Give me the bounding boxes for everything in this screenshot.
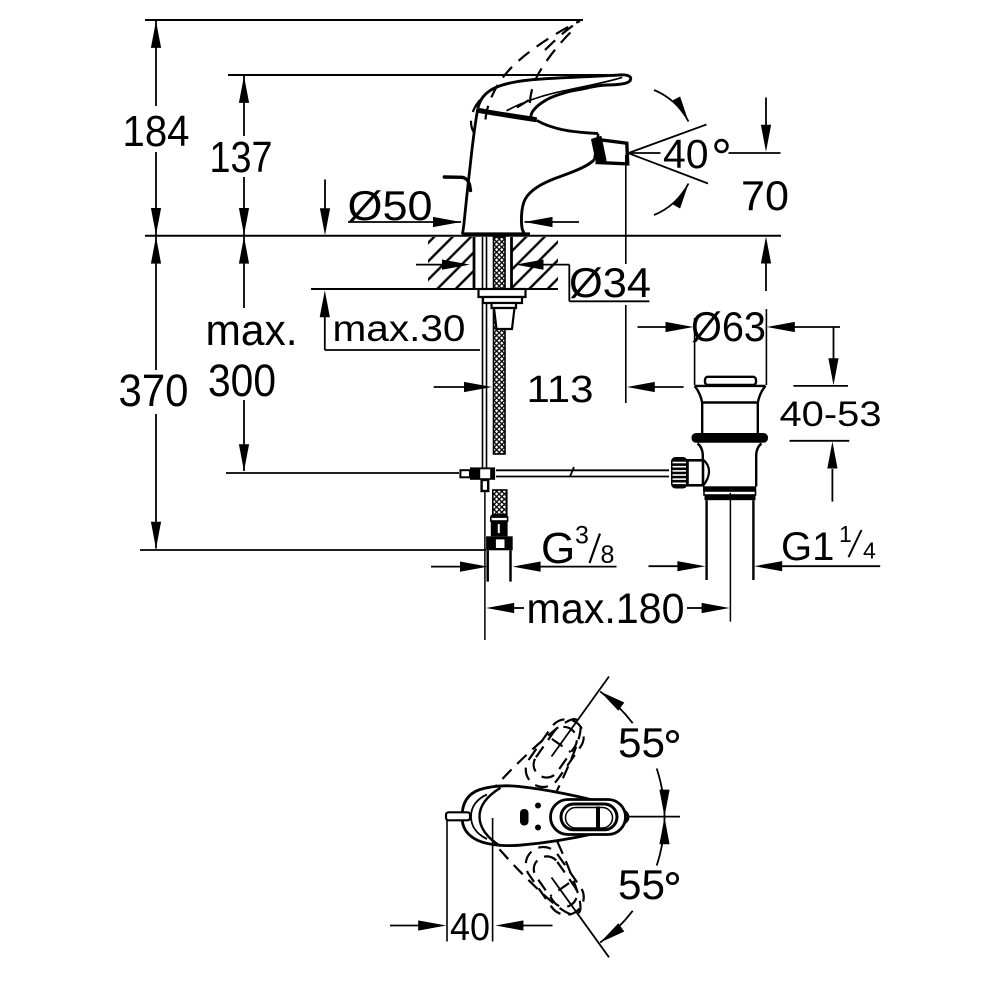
dimension 70 [741,98,789,292]
pop-up pull rod knob [444,177,470,191]
top-view oval second ring [561,804,617,830]
svg-text:max.180: max.180 [527,585,685,633]
aerator ring [592,137,606,164]
svg-text:184: 184 [123,107,190,156]
extension line from rod down (G3/8 and max.180 reference) [484,491,486,640]
top-view dashed lever rotated up 55deg [488,703,601,829]
dimension 40-53 [780,328,882,502]
lever/body gap thick line [478,110,536,120]
top-view black mark [520,809,529,826]
dimension max.30 upper arrow (points down to counter top) [320,180,330,236]
dimension G1 1/4 [649,521,881,572]
reference line top (max spout height) [145,19,583,21]
threaded mounting rod [494,237,506,454]
lever inner crease line [507,77,623,110]
svg-text:300: 300 [208,355,276,406]
hose braid bottom band [491,515,508,517]
pop-up tailpipe [707,500,754,580]
dimension 113 [434,369,684,411]
top-view dot upper [535,803,541,809]
dimension 40 (bottom view) [390,818,553,949]
spout underside / body right edge [521,160,594,234]
faucet base thick contact line [462,232,530,236]
svg-text:40-53: 40-53 [780,394,882,434]
faucet lever (solid) [478,75,631,119]
spout end face [594,134,598,160]
reference line second (spout height 137) [228,74,624,76]
raised lever dashed outline [471,21,580,134]
dimension G3/8 [431,522,617,574]
svg-text:8: 8 [601,541,615,569]
top-view dome seam arc [480,788,501,846]
svg-text:55: 55 [618,719,665,766]
pop-up body below gasket [698,444,762,487]
top-view dashed lever rotated down 55deg [490,804,603,930]
hose nut collar [486,536,513,550]
dimension Ø50 [348,182,580,229]
pop-up actuator rod horizontal [496,467,669,477]
dimension max.180 [486,585,729,633]
svg-text:1: 1 [839,521,852,547]
flexible hose braid [493,490,507,515]
pop-up waste head cap [705,377,756,385]
top-view centerline right [628,816,681,818]
pull rod end connector below fitting [482,480,489,491]
counter/mounting surface line [145,235,781,237]
spray cone centerline left [630,152,661,154]
knurled adjuster knob [671,457,703,489]
svg-text:55: 55 [618,861,665,908]
55deg diagonal upper [552,677,610,757]
hose tube [488,550,511,581]
shank left wall [473,237,476,289]
40deg arc upper [654,90,689,122]
spray cone centerline right [729,152,781,154]
pop-up bottom ring [703,486,756,491]
top-view dot lower [535,825,541,831]
faucet body left edge [462,109,477,234]
nozzle centerline vertical (113 reference) [625,155,627,264]
dimension 137 [210,76,273,235]
spray cone lower line [629,153,708,183]
dimension Ø63 [638,303,841,385]
dimension line bottom reference (370 end, hose) [140,549,486,551]
55deg diagonal lower [552,878,610,958]
shank right wall [510,237,513,289]
top-view oval divider [596,807,600,830]
svg-text:4: 4 [863,538,876,564]
top-view left cap inner arc [471,795,487,840]
svg-text:3: 3 [575,522,589,550]
dimension max.300 [206,237,460,473]
spout top edge [537,120,598,133]
pop-up side bulge arc left [703,460,709,487]
mounting nut stack below counter [479,289,526,329]
svg-text:Ø34: Ø34 [569,259,651,306]
hose nut top white stripe [491,517,508,521]
hose nut body [491,521,508,536]
svg-text:G: G [541,524,575,573]
aerator nozzle [597,140,627,164]
svg-text:370: 370 [119,365,189,416]
svg-text:137: 137 [210,133,273,182]
svg-text:Ø63: Ø63 [691,303,766,350]
svg-text:70: 70 [741,172,789,219]
spray cone upper line [629,125,707,153]
top-view body outline [462,786,628,846]
55deg arc upper [600,692,633,724]
counter cross-section hatch right [513,237,559,288]
counter bottom line [311,288,558,290]
top-view pull-rod tab [446,812,470,820]
svg-text:40: 40 [663,131,709,177]
svg-text:40: 40 [450,906,490,949]
55deg arc lower [600,911,633,943]
dimension max.30 [320,290,480,350]
dimension 184 [123,21,190,235]
pull rod below counter [482,237,484,468]
svg-text:max.: max. [206,306,298,355]
top-view oval outer ring [551,800,626,835]
pop-up waste head [695,386,766,433]
svg-text:113: 113 [527,369,594,411]
svg-text:max.30: max.30 [333,308,466,349]
pop-up gasket band (black) [692,433,769,443]
counter cross-section hatch left [428,237,474,288]
dimension 370 [119,237,189,549]
40deg arc lower [654,184,689,216]
actuator rod clamp fitting [460,467,495,479]
tailpipe centerline [729,493,731,622]
dimension Ø34 [416,259,651,306]
svg-text:G1: G1 [781,525,834,569]
top-view oval third ring [566,808,613,829]
